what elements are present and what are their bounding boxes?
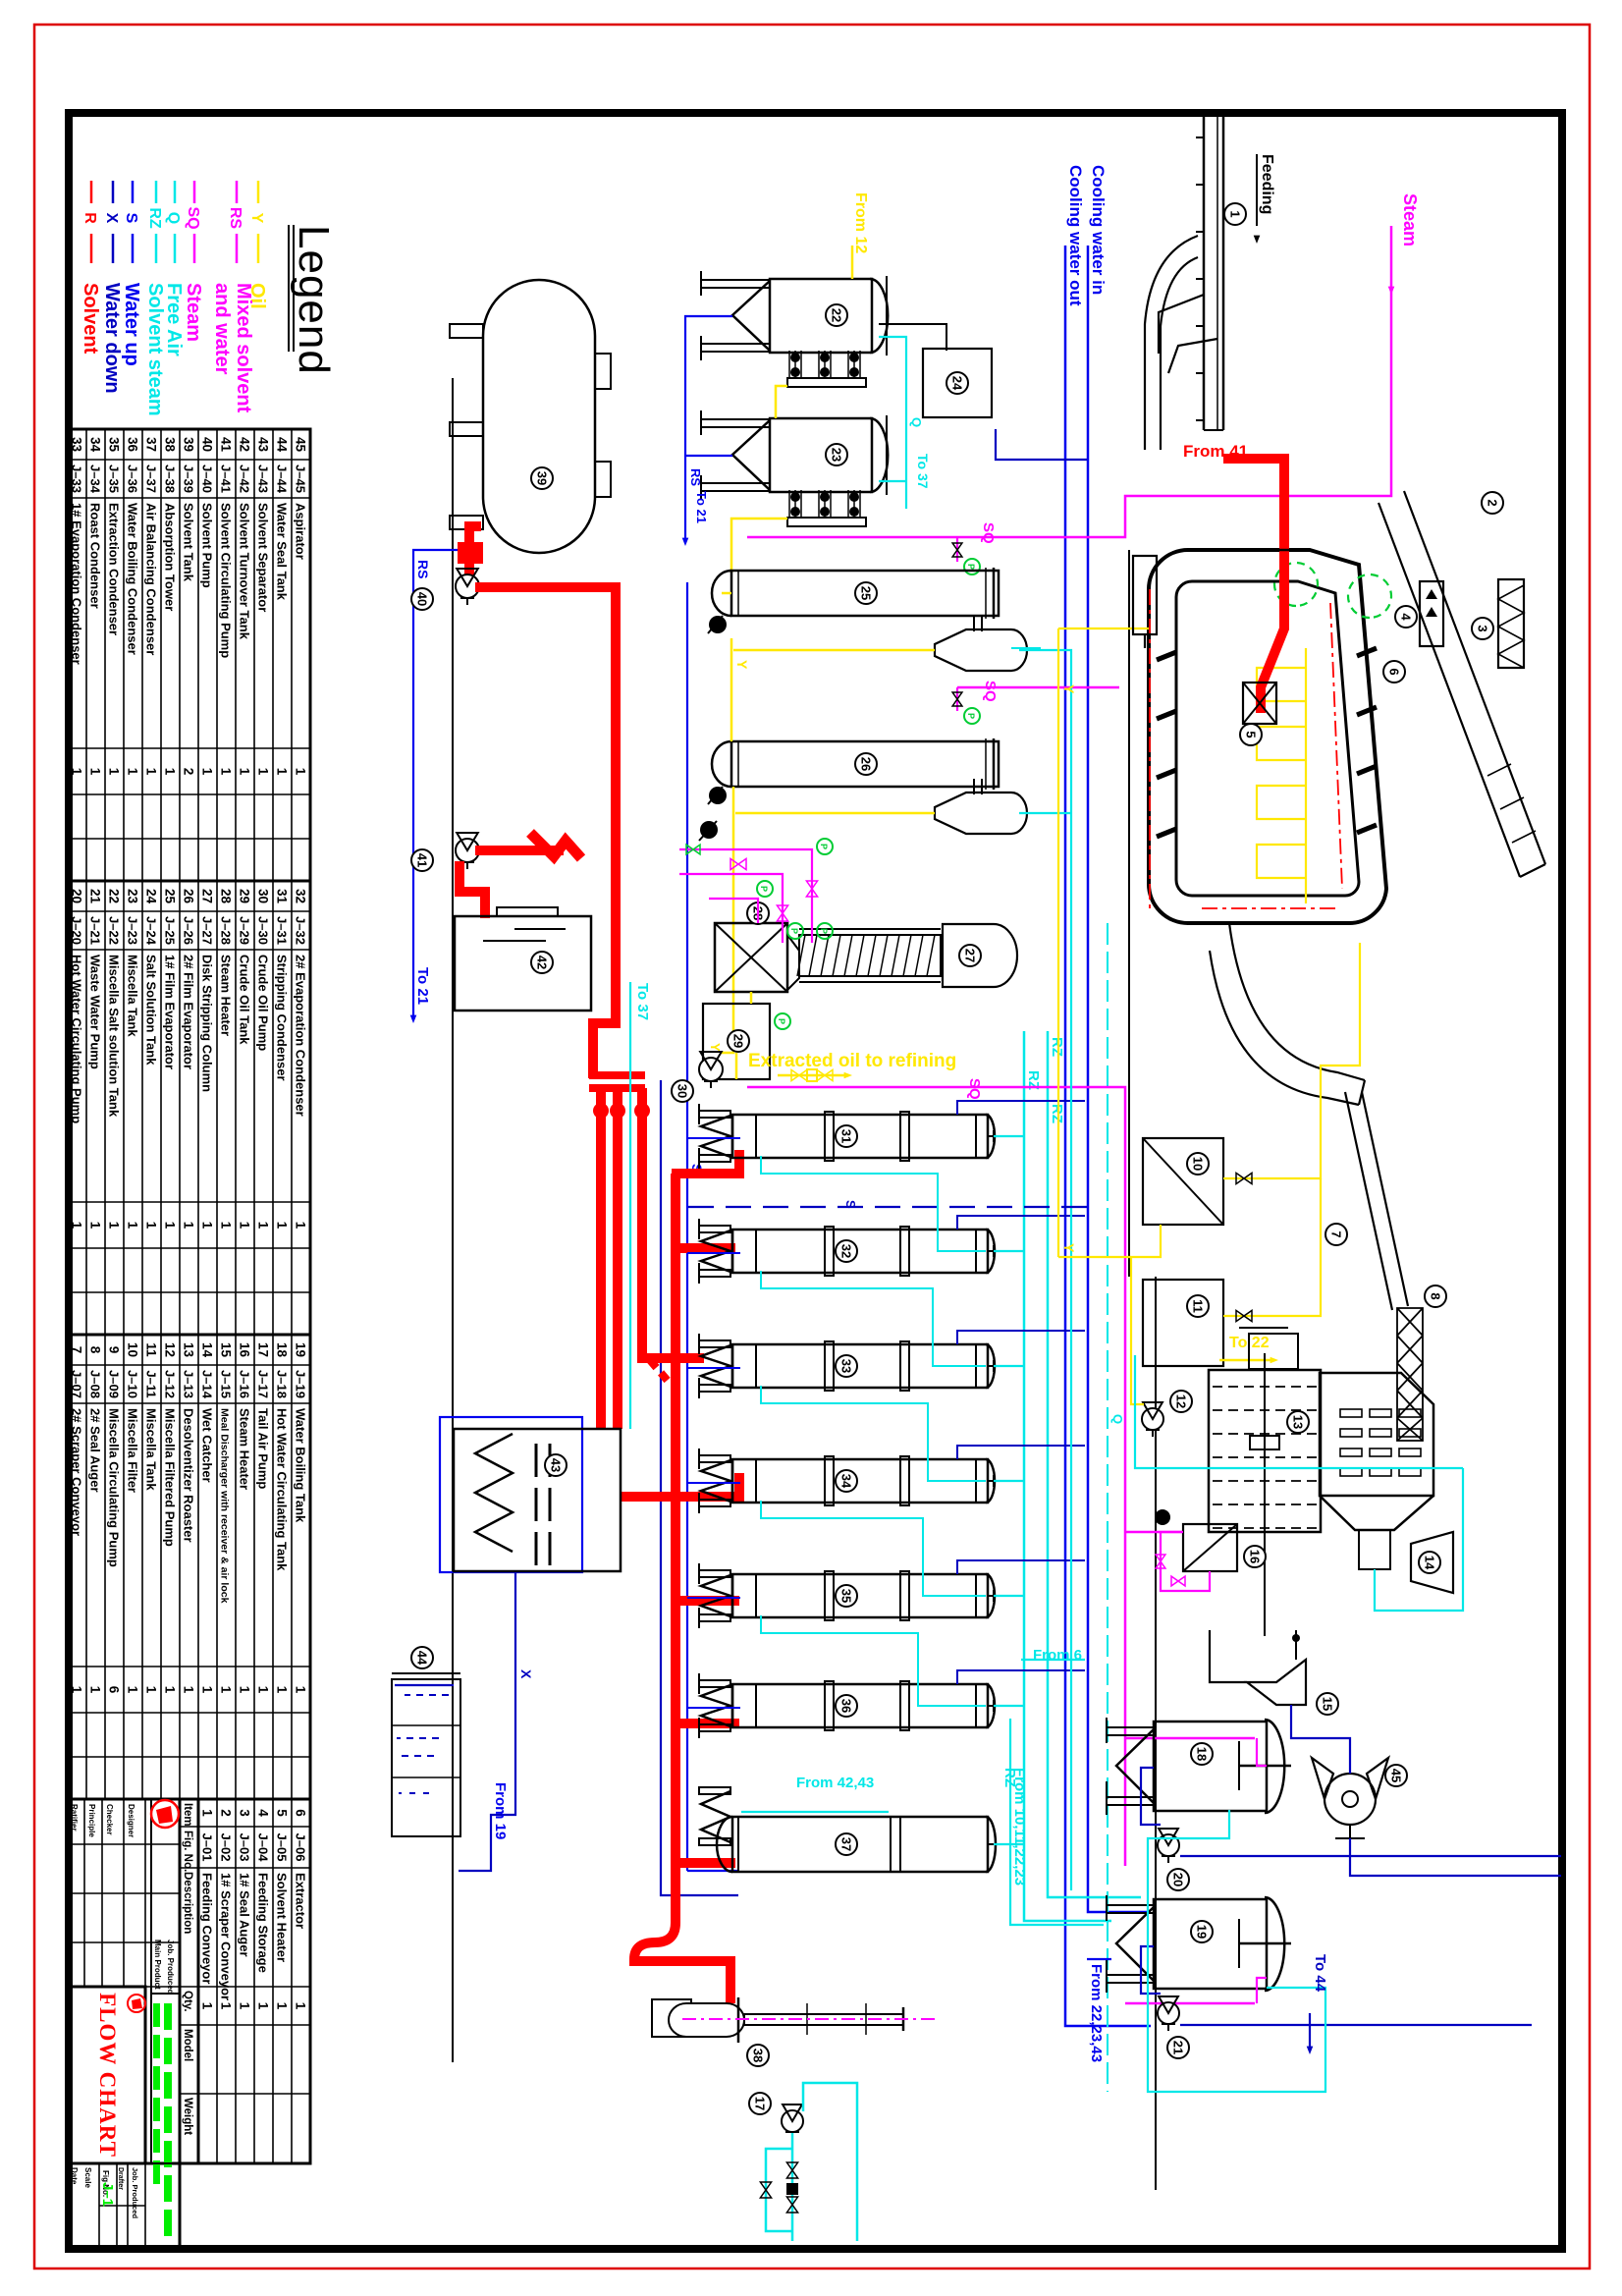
- svg-text:19: 19: [1194, 1925, 1209, 1939]
- crude oil tank 29: [703, 1004, 770, 1079]
- svg-text:Stripping Condenser: Stripping Condenser: [275, 955, 290, 1081]
- svg-text:RS: RS: [415, 560, 431, 578]
- svg-text:12: 12: [163, 1342, 178, 1357]
- svg-text:32: 32: [294, 889, 308, 903]
- svg-text:Solvent: Solvent: [80, 283, 101, 355]
- svg-text:J–18: J–18: [275, 1370, 290, 1398]
- tank 23 cone: [732, 420, 770, 490]
- svg-text:Extracted oil to refining: Extracted oil to refining: [748, 1051, 956, 1071]
- svg-text:34: 34: [838, 1474, 853, 1489]
- yellow discharge valves: [778, 1074, 846, 1077]
- svg-text:33: 33: [838, 1359, 853, 1373]
- svg-text:25: 25: [163, 889, 178, 904]
- baseline under tanks 39-43: [452, 378, 454, 2062]
- legend entry R: [90, 181, 93, 203]
- vessel 31 blue stub: [687, 1137, 740, 1139]
- inlet duct curve: [1145, 236, 1198, 450]
- tank 43 chevron heater: [475, 1434, 513, 1552]
- legend title underline: [293, 225, 295, 352]
- tank 22 body: [770, 279, 872, 353]
- svg-text:Fig. No.: Fig. No.: [182, 1831, 193, 1872]
- evaporator vessel 35: [732, 1574, 988, 1617]
- svg-text:38: 38: [750, 2049, 765, 2062]
- svg-text:36: 36: [126, 437, 140, 453]
- svg-text:29: 29: [730, 1034, 745, 1048]
- tank 22 finned heater: [859, 351, 861, 378]
- svg-text:Water Boiling Tank: Water Boiling Tank: [294, 1408, 308, 1523]
- svg-text:J–42: J–42: [238, 465, 252, 493]
- svg-text:J–04: J–04: [256, 1833, 271, 1863]
- extractor label 6: [1383, 661, 1405, 683]
- condenser 26 drain: [709, 787, 727, 804]
- svg-text:To 21: To 21: [694, 491, 709, 523]
- From 42,43 cyan line to vessel 37: [741, 1811, 889, 1813]
- extractor yellow spray loops: [1257, 668, 1306, 701]
- red line B to tank 43: [613, 1088, 622, 1429]
- legend entry SQ: [193, 181, 196, 203]
- evaporator vessel 33: [732, 1344, 988, 1388]
- svg-text:1: 1: [238, 2002, 252, 2010]
- tank 23 label: [826, 444, 847, 465]
- svg-text:2: 2: [219, 1809, 234, 1817]
- svg-text:14: 14: [1422, 1556, 1436, 1570]
- tower 38 packing tube: [744, 2014, 903, 2025]
- vessel 35 label: [836, 1585, 857, 1607]
- svg-text:Designer: Designer: [127, 1804, 135, 1837]
- SQ risers to tanks 16 18 19: [1125, 1531, 1183, 1534]
- tank 43 black body: [454, 1429, 621, 1571]
- vessel 33 blue feed from cooling line: [957, 1331, 1085, 1344]
- blue vent lines tanks 22 23 to To 21: [685, 316, 732, 542]
- svg-text:J–02: J–02: [219, 1833, 234, 1862]
- svg-text:21: 21: [1170, 2041, 1185, 2054]
- svg-text:1: 1: [182, 1222, 196, 1230]
- svg-text:From 19: From 19: [492, 1782, 509, 1839]
- vessel 34 blue stub: [687, 1482, 740, 1484]
- yellow valves at boxes: [1236, 1173, 1252, 1183]
- svg-text:Date: Date: [70, 2167, 79, 2185]
- svg-text:18: 18: [1194, 1747, 1209, 1761]
- tank 43 internal bars: [549, 1444, 552, 1477]
- svg-text:J–22: J–22: [107, 916, 122, 945]
- svg-text:J–09: J–09: [107, 1370, 122, 1398]
- magenta feeds to tanks 18 19: [1257, 1738, 1267, 1766]
- svg-text:1: 1: [219, 1686, 234, 1694]
- svg-text:and water: and water: [211, 283, 233, 375]
- svg-text:Cooling water in: Cooling water in: [1089, 165, 1108, 295]
- vessel 36 blue stub: [687, 1707, 740, 1709]
- vessel 34 cyan vapour stub: [994, 1480, 1024, 1482]
- svg-text:J–39: J–39: [182, 465, 196, 493]
- blue duct fan to DT: [1350, 1838, 1561, 1876]
- svg-text:Description: Description: [182, 1872, 193, 1934]
- red riser to vessel 34 from tank 43: [620, 1473, 739, 1497]
- title block outline: [68, 1799, 180, 2163]
- svg-text:P: P: [789, 928, 799, 934]
- svg-text:Y: Y: [1061, 1243, 1077, 1253]
- pump 17 suction: [803, 2083, 857, 2241]
- red riser to vessel 36: [672, 1719, 739, 1728]
- svg-text:1: 1: [88, 1686, 103, 1694]
- red manifold flange bars: [589, 1071, 645, 1079]
- To 37 cyan line near manifold: [629, 982, 631, 1429]
- magenta manifold cluster: [679, 849, 812, 943]
- vessel 35 blue feed from cooling line: [957, 1560, 1085, 1574]
- vessel 36 label: [836, 1695, 857, 1717]
- svg-text:Free Air: Free Air: [163, 283, 185, 356]
- duct 2 label: [1482, 492, 1503, 514]
- svg-text:Solvent steam: Solvent steam: [144, 283, 166, 416]
- svg-text:3: 3: [1475, 625, 1489, 631]
- vessel 32 label: [836, 1240, 857, 1262]
- condenser 26 shell: [731, 741, 999, 787]
- svg-text:1: 1: [275, 768, 290, 776]
- tank 44 water level dashes: [395, 1684, 454, 1686]
- svg-text:1: 1: [107, 1222, 122, 1230]
- svg-text:11: 11: [1190, 1299, 1205, 1313]
- svg-text:J–11: J–11: [144, 1370, 159, 1397]
- svg-text:5: 5: [275, 1809, 290, 1817]
- svg-text:Job. Produced: Job. Produced: [131, 2167, 139, 2219]
- tank 22 fin end plate: [787, 378, 866, 387]
- svg-text:Water down: Water down: [101, 283, 123, 394]
- svg-text:35: 35: [107, 437, 122, 453]
- svg-text:1: 1: [256, 2002, 271, 2010]
- svg-text:35: 35: [838, 1589, 853, 1603]
- svg-text:Feeding: Feeding: [1259, 154, 1275, 214]
- pear A yellow drop: [733, 649, 935, 652]
- vessel 35 blue stub: [687, 1597, 740, 1599]
- svg-text:1: 1: [144, 1686, 159, 1694]
- svg-text:From 22,23,43: From 22,23,43: [1088, 1964, 1105, 2062]
- red manifold flange dots: [634, 1103, 650, 1119]
- red pipe tank39 to pump40: [469, 526, 481, 579]
- yellow line boxes to pump 12: [1131, 1225, 1161, 1404]
- baseline under extractor and DTDC: [1128, 550, 1130, 1277]
- svg-text:1: 1: [70, 768, 84, 776]
- svg-text:2# Seal Auger: 2# Seal Auger: [88, 1408, 103, 1493]
- disk stripping column 27: [799, 935, 941, 976]
- svg-text:Water up: Water up: [121, 283, 142, 366]
- red riser to vessel 32: [672, 1243, 735, 1253]
- feed chute to extractor: [1159, 295, 1204, 354]
- svg-text:6: 6: [1386, 668, 1401, 675]
- svg-text:Q: Q: [909, 417, 924, 427]
- svg-text:FLOW CHART: FLOW CHART: [95, 1993, 120, 2158]
- steam SQ main line: [747, 226, 1391, 537]
- DT tower 13: [1209, 1370, 1321, 1532]
- evaporator vessel 34: [732, 1459, 988, 1503]
- pump 17: [782, 2110, 803, 2132]
- svg-text:RZ: RZ: [146, 207, 163, 229]
- svg-text:Hot Water Circulating Tank: Hot Water Circulating Tank: [275, 1408, 290, 1571]
- legend entry X: [112, 181, 115, 203]
- svg-text:R: R: [81, 212, 98, 224]
- svg-text:6: 6: [294, 1809, 308, 1817]
- yellow pipe tank23 heater to condenser 25: [731, 519, 787, 573]
- svg-text:From 6: From 6: [1033, 1647, 1082, 1664]
- box 16 steam heater: [1183, 1524, 1237, 1571]
- svg-text:16: 16: [1247, 1550, 1262, 1563]
- svg-text:27: 27: [200, 889, 215, 903]
- vessel 32 cyan vapour stub: [994, 1250, 1024, 1252]
- svg-text:37: 37: [838, 1837, 853, 1851]
- svg-text:40: 40: [200, 437, 215, 452]
- svg-text:SQ: SQ: [982, 681, 999, 702]
- svg-text:J–27: J–27: [200, 916, 215, 945]
- svg-text:1: 1: [219, 1222, 234, 1230]
- svg-text:41: 41: [219, 437, 234, 453]
- svg-text:20: 20: [1170, 1873, 1185, 1886]
- svg-text:J–38: J–38: [163, 465, 178, 493]
- svg-text:J–23: J–23: [126, 916, 140, 945]
- svg-text:J–05: J–05: [275, 1833, 290, 1862]
- svg-text:1: 1: [238, 768, 252, 776]
- tank 23 legs: [701, 419, 770, 427]
- duct 7 label: [1325, 1224, 1347, 1245]
- pump 17 cyan discharge with valves: [791, 2133, 794, 2241]
- box 24 water seal: [923, 349, 992, 417]
- red U-trap to absorption tower 38: [634, 1923, 730, 2003]
- yellow piping to boxes 10 11: [1223, 943, 1360, 1178]
- extractor vapour outlet duct: [1133, 556, 1157, 634]
- red riser to vessel 35: [672, 1596, 739, 1606]
- baseline under tanks 18-19: [1155, 1277, 1157, 2190]
- tank 44 water seal tank: [392, 1679, 460, 1836]
- svg-text:Meal Discharger with receiver: Meal Discharger with receiver & air lock: [219, 1408, 231, 1604]
- svg-text:J–31: J–31: [275, 916, 290, 945]
- svg-text:X: X: [518, 1669, 534, 1679]
- svg-text:43: 43: [548, 1458, 563, 1472]
- svg-text:1: 1: [70, 1222, 84, 1230]
- vessel 34 blue feed from cooling line: [957, 1446, 1085, 1459]
- tower 38 label: [747, 2045, 769, 2066]
- solvent steam RZ line 2: [1023, 1031, 1026, 1886]
- svg-text:Ratifier: Ratifier: [70, 1804, 79, 1831]
- svg-text:Water Seal Tank: Water Seal Tank: [275, 503, 290, 601]
- tank 23 finned heater: [859, 490, 861, 518]
- condenser 26 label: [855, 753, 877, 775]
- svg-text:Model: Model: [182, 2029, 193, 2061]
- svg-text:7: 7: [1328, 1230, 1343, 1237]
- svg-text:42: 42: [534, 956, 549, 969]
- legend entry RS: [236, 181, 239, 203]
- svg-text:P: P: [966, 713, 976, 719]
- free air Q dashed line: [1107, 923, 1108, 2092]
- evaporator vessel 37: [732, 1817, 988, 1872]
- svg-text:13: 13: [182, 1342, 196, 1358]
- svg-text:J–08: J–08: [88, 1370, 103, 1398]
- svg-text:1: 1: [70, 1686, 84, 1694]
- evaporator vessel 36: [732, 1684, 988, 1727]
- svg-text:J–33: J–33: [70, 465, 84, 493]
- svg-text:X: X: [103, 213, 120, 224]
- svg-text:Q: Q: [1110, 1414, 1125, 1424]
- red crossover dash: [650, 1360, 668, 1381]
- svg-text:1: 1: [200, 768, 215, 776]
- title block right cells: [68, 2162, 180, 2164]
- vessel 36 blue feed from cooling line: [957, 1670, 1085, 1684]
- svg-text:Aspirator: Aspirator: [294, 503, 308, 560]
- svg-text:J–15: J–15: [219, 1370, 234, 1398]
- water down X line tank43 to tank44: [459, 1572, 515, 1871]
- svg-text:1: 1: [88, 768, 103, 776]
- svg-text:9: 9: [107, 1346, 122, 1354]
- svg-text:Drafter: Drafter: [117, 2167, 124, 2190]
- table band items 19-7: [68, 1335, 310, 1799]
- svg-text:1# Evaporation Condenser: 1# Evaporation Condenser: [70, 503, 84, 665]
- svg-text:Hot Water Circulating Pump: Hot Water Circulating Pump: [70, 955, 84, 1123]
- SQ line to DT area: [747, 1087, 1125, 1866]
- svg-text:J–19: J–19: [294, 1370, 308, 1398]
- yellow line condenser26 to pump 30: [721, 787, 733, 1053]
- svg-text:Air Balancing Condenser: Air Balancing Condenser: [144, 503, 159, 655]
- tank 39 solvent tank body: [483, 280, 595, 553]
- svg-text:10: 10: [1190, 1157, 1205, 1171]
- magenta piping at 16: [1161, 1532, 1210, 1591]
- svg-text:2: 2: [182, 768, 196, 776]
- lattice tower 8: [1397, 1308, 1423, 1441]
- svg-text:Principle: Principle: [87, 1804, 96, 1837]
- svg-text:45: 45: [294, 437, 308, 453]
- svg-text:S: S: [123, 213, 139, 224]
- svg-text:To 37: To 37: [915, 454, 931, 489]
- cyan pear stub: [1011, 647, 1041, 649]
- svg-text:36: 36: [838, 1699, 853, 1713]
- tank 43 label: [545, 1454, 567, 1476]
- cyan loop tanks 18 19: [1148, 1810, 1325, 2092]
- svg-text:44: 44: [275, 437, 290, 453]
- cyan Q line tanks 22 23 to To 37: [879, 337, 906, 509]
- svg-text:Y: Y: [708, 1043, 723, 1052]
- svg-text:24: 24: [144, 889, 159, 904]
- svg-text:1: 1: [163, 1222, 178, 1230]
- svg-text:Main Product: Main Product: [153, 1940, 162, 1990]
- svg-text:15: 15: [219, 1342, 234, 1358]
- svg-text:1: 1: [219, 2002, 234, 2010]
- svg-text:J–13: J–13: [182, 1370, 196, 1398]
- svg-text:Water Boiling Condenser: Water Boiling Condenser: [126, 503, 140, 655]
- pear B yellow drop: [735, 812, 935, 815]
- svg-text:21: 21: [88, 889, 103, 904]
- table band items 45-33: [68, 429, 310, 881]
- svg-text:Extractor: Extractor: [294, 1873, 308, 1929]
- svg-text:11: 11: [144, 1342, 159, 1357]
- title block FLOW CHART box: [70, 1987, 145, 2163]
- svg-text:14: 14: [200, 1342, 215, 1358]
- svg-text:J–06: J–06: [294, 1833, 308, 1862]
- svg-text:1# Film Evaporator: 1# Film Evaporator: [163, 955, 178, 1069]
- yellow pipe tank22 heater to tank23: [776, 386, 787, 418]
- svg-text:25: 25: [858, 586, 873, 600]
- svg-text:1: 1: [294, 2002, 308, 2010]
- svg-text:J–03: J–03: [238, 1833, 252, 1862]
- svg-text:To 44: To 44: [1312, 1954, 1328, 1993]
- vessel 33 blue stub: [687, 1367, 740, 1369]
- svg-text:10: 10: [126, 1342, 140, 1357]
- tank 19 filter tank: [1154, 1899, 1267, 1989]
- svg-text:26: 26: [182, 889, 196, 904]
- box 10 wet catcher: [1143, 1138, 1223, 1225]
- svg-text:P: P: [966, 564, 976, 570]
- feeding conveyor label: [1224, 203, 1246, 225]
- seal auger 4: [1420, 581, 1443, 646]
- svg-text:From 12: From 12: [852, 192, 869, 253]
- title block red logo: [151, 1800, 179, 1828]
- legend entry Q: [174, 181, 177, 203]
- svg-text:Scale: Scale: [83, 2167, 92, 2188]
- svg-text:Miscella Tank: Miscella Tank: [126, 955, 140, 1037]
- svg-text:4: 4: [1398, 613, 1413, 621]
- svg-text:1: 1: [126, 1222, 140, 1230]
- svg-text:30: 30: [256, 889, 271, 903]
- svg-text:Solvent Turnover Tank: Solvent Turnover Tank: [238, 503, 252, 640]
- svg-text:1: 1: [256, 1686, 271, 1694]
- extractor 6 inner wall: [1176, 581, 1359, 896]
- svg-text:44: 44: [414, 1651, 429, 1666]
- legend entry RZ: [155, 181, 158, 203]
- svg-text:Qty.: Qty.: [182, 1991, 193, 2012]
- svg-text:8: 8: [1428, 1292, 1442, 1299]
- svg-text:Cooling water out: Cooling water out: [1066, 165, 1085, 306]
- svg-text:1: 1: [256, 1222, 271, 1230]
- svg-text:Steam: Steam: [1400, 193, 1420, 246]
- evaporator vessel 31: [732, 1115, 988, 1158]
- svg-text:2# Scraper Conveyor: 2# Scraper Conveyor: [70, 1408, 84, 1536]
- svg-text:J–20: J–20: [70, 916, 84, 945]
- svg-text:Disk Stripping Column: Disk Stripping Column: [200, 955, 215, 1092]
- svg-text:Steam Heater: Steam Heater: [238, 1408, 252, 1490]
- duct cyclone to fan: [1291, 1705, 1350, 1774]
- svg-text:SQ: SQ: [980, 522, 997, 544]
- box 11 miscella tank: [1143, 1280, 1223, 1366]
- svg-text:Steam Heater: Steam Heater: [219, 955, 234, 1036]
- svg-text:SQ: SQ: [185, 206, 201, 229]
- wet catcher 14 body: [1411, 1532, 1453, 1593]
- vessel 27 capsule: [943, 924, 1017, 987]
- yellow manifold over extractor: [1305, 648, 1307, 903]
- svg-text:RS: RS: [688, 468, 703, 486]
- svg-text:Crude Oil Pump: Crude Oil Pump: [256, 955, 271, 1051]
- svg-text:J–44: J–44: [275, 465, 290, 494]
- water line under evaporators: [660, 1080, 662, 1871]
- yellow pipe 28 to 29: [750, 992, 753, 1004]
- svg-text:1: 1: [200, 1686, 215, 1694]
- vessel 31 blue feed from cooling line: [957, 1101, 1085, 1115]
- svg-text:Checker: Checker: [105, 1804, 114, 1835]
- svg-text:J–07: J–07: [70, 1370, 84, 1398]
- svg-text:38: 38: [163, 437, 178, 453]
- title block red logo small: [128, 1995, 145, 2012]
- svg-text:P: P: [759, 886, 769, 892]
- svg-text:J–28: J–28: [219, 916, 234, 945]
- svg-text:1: 1: [238, 1686, 252, 1694]
- pear A cyan riser: [1019, 650, 1071, 1890]
- svg-text:Miscella Salt solution Tank: Miscella Salt solution Tank: [107, 955, 122, 1118]
- tank 39 nozzles: [595, 354, 611, 389]
- svg-text:J–37: J–37: [144, 465, 159, 493]
- extractor 6 outer shell: [1149, 550, 1386, 923]
- pump 12: [1142, 1408, 1163, 1430]
- svg-text:2# Evaporation Condenser: 2# Evaporation Condenser: [294, 955, 308, 1117]
- evaporator vessel 32: [732, 1230, 988, 1273]
- svg-text:Q: Q: [165, 212, 182, 224]
- svg-text:Feeding Storage: Feeding Storage: [256, 1873, 271, 1973]
- blue piping tank18 pump20: [1141, 1768, 1161, 1825]
- red main D distribution line: [671, 1174, 680, 1923]
- black ball drain cluster: [700, 821, 718, 839]
- svg-text:Y: Y: [1061, 684, 1077, 694]
